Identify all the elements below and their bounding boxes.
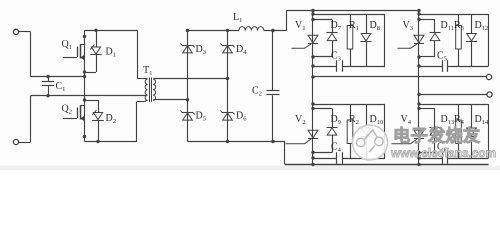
- label D14: [475, 114, 490, 126]
- input terminal - (bottom left): [13, 139, 30, 144]
- label L1: [233, 12, 242, 24]
- node output B: [417, 93, 420, 96]
- diode D8: [360, 14, 371, 66]
- wire inverter top rail: [287, 10, 420, 12]
- wire snubber box edge V2: [384, 104, 386, 158]
- diode D12: [466, 14, 477, 66]
- resistor R2: [347, 104, 353, 158]
- node rectifier top left: [186, 29, 189, 32]
- node Q2 source: [83, 135, 86, 138]
- wire primary bottom riser: [137, 100, 148, 142]
- wire input- up: [30, 96, 32, 142]
- node bottom rail leg2: [417, 163, 420, 166]
- diode D9: [313, 109, 338, 153]
- thyristor V4: [392, 130, 425, 144]
- node leg header2 V2: [311, 107, 314, 110]
- transistor Q1: [63, 44, 85, 60]
- label D3: [196, 44, 207, 56]
- label Q1: [62, 39, 73, 51]
- label C2: [252, 86, 262, 98]
- thyristor V3: [398, 35, 425, 48]
- label V3: [403, 20, 414, 32]
- label R1: [349, 20, 359, 32]
- wire input+ down: [30, 32, 32, 77]
- wire step down: [284, 142, 286, 165]
- wire snubber header (V2 quadrant): [313, 105, 385, 109]
- diode D5: [180, 110, 194, 120]
- wire snubber header (V3 quadrant): [419, 15, 489, 20]
- label Q2: [62, 104, 73, 116]
- resistor R1: [347, 14, 353, 66]
- label R3: [454, 20, 465, 32]
- label D5: [196, 110, 207, 122]
- wire snubber header (V1 quadrant): [313, 15, 385, 20]
- node top rail leg2: [417, 9, 420, 12]
- input terminal + (top left): [13, 29, 30, 34]
- node rectifier bottom right: [226, 140, 229, 143]
- node leg snubber line V3: [417, 64, 420, 67]
- wire top rail to transformer: [85, 30, 138, 32]
- transformer T1: [145, 78, 155, 102]
- label D10: [370, 114, 385, 126]
- wire input+ rail: [31, 76, 85, 78]
- label D6: [236, 110, 247, 122]
- label R4: [454, 114, 465, 126]
- resistor R4: [456, 104, 462, 158]
- label D1: [106, 47, 117, 59]
- node output A: [311, 75, 314, 78]
- node Q1 drain: [83, 35, 86, 38]
- wire secondary bottom: [153, 99, 187, 101]
- wire primary top riser: [138, 30, 148, 78]
- capacitor C2: [267, 31, 280, 142]
- thyristor V2: [286, 130, 319, 144]
- diode D7: [313, 20, 338, 58]
- output terminal A: [486, 74, 491, 79]
- label C3: [331, 50, 342, 62]
- node D2 top: [83, 98, 86, 101]
- node rectifier top right: [226, 29, 229, 32]
- capacitor C1: [42, 77, 54, 96]
- node top rail leg1: [311, 9, 314, 12]
- wire inverter leg A: [312, 11, 314, 165]
- svg-text:www.elecfans.com: www.elecfans.com: [390, 146, 496, 160]
- wire bottom rail to transformer: [85, 141, 138, 143]
- node C1 top: [46, 75, 49, 78]
- wire output rail B: [419, 94, 487, 96]
- wire input- rail to transformer: [31, 95, 147, 97]
- wire output rail A: [313, 76, 486, 78]
- output terminal B: [487, 92, 492, 97]
- diode D13: [419, 109, 441, 153]
- node D1 bottom: [83, 70, 86, 73]
- transistor Q2: [63, 105, 85, 121]
- node leg header2 V3: [417, 18, 420, 21]
- diode D2: [85, 100, 104, 142]
- label R2: [349, 114, 359, 126]
- wire inverter bottom rail: [285, 164, 489, 166]
- wire snubber header (V4 quadrant): [419, 105, 489, 109]
- wire inverter leg B: [418, 11, 420, 165]
- node tie D9: [311, 151, 314, 154]
- node secondary bottom tie: [186, 98, 189, 101]
- diode D1: [85, 30, 102, 72]
- diode D10: [360, 104, 371, 158]
- label D7: [331, 20, 342, 32]
- node leg header2 V4: [417, 107, 420, 110]
- node tie D7: [311, 55, 314, 58]
- label V1: [295, 20, 306, 32]
- node leg header1 V1: [311, 12, 314, 15]
- label T1: [143, 65, 152, 77]
- node D2 bottom: [96, 140, 99, 143]
- wire secondary top: [153, 78, 227, 80]
- node input+ tie: [83, 75, 86, 78]
- watermark bottom strip: [0, 166, 500, 171]
- node leg snubber line V1: [311, 64, 314, 67]
- thyristor V1: [292, 35, 319, 48]
- label C5: [437, 50, 448, 62]
- label D2: [106, 113, 117, 125]
- watermark stamp circle: [353, 125, 388, 160]
- label C4: [331, 142, 342, 154]
- wire snubber box edge V1: [384, 14, 386, 66]
- svg-text:电子发烧友: 电子发烧友: [393, 126, 481, 146]
- capacitor C6: [419, 152, 489, 164]
- capacitor C3: [313, 60, 385, 72]
- node leg header2 V1: [311, 18, 314, 21]
- node leg header1 V2: [311, 102, 314, 105]
- diode D6: [220, 110, 234, 120]
- inductor L1: [239, 27, 264, 31]
- capacitor C4: [313, 152, 385, 164]
- label C6: [437, 142, 448, 154]
- label V2: [295, 114, 306, 126]
- diode D11: [419, 20, 441, 58]
- node leg header1 V3: [417, 12, 420, 15]
- node secondary top tie: [226, 77, 229, 80]
- label D9: [331, 114, 342, 126]
- wire inverter top riser: [286, 11, 288, 31]
- diode D3: [180, 43, 194, 53]
- node tie D13: [417, 151, 420, 154]
- node C2 top: [271, 29, 274, 32]
- label D11: [441, 20, 455, 32]
- wire L1 to riser: [264, 30, 287, 32]
- node D1 top: [94, 29, 97, 32]
- diode D14: [466, 104, 477, 158]
- node leg snubber line V2: [311, 156, 314, 159]
- label D12: [475, 20, 489, 32]
- label D8: [370, 20, 381, 32]
- label D13: [441, 114, 456, 126]
- node leg snubber line V4: [417, 156, 420, 159]
- diode D4: [220, 43, 234, 53]
- capacitor C5: [419, 60, 489, 72]
- wire rectifier bottom rail: [188, 141, 286, 143]
- wire rectifier top rail: [188, 30, 240, 32]
- wire switch leg vertical: [84, 30, 86, 141]
- wire snubber box edge V3: [488, 14, 490, 66]
- label C1: [56, 81, 66, 93]
- label V4: [401, 114, 412, 126]
- resistor R3: [456, 14, 462, 66]
- wire rectifier left leg: [187, 31, 189, 142]
- node tie D11: [417, 55, 420, 58]
- wire snubber box edge V4: [488, 104, 490, 158]
- node C2 bottom: [271, 140, 274, 143]
- node leg header1 V4: [417, 102, 420, 105]
- node C1 bottom: [46, 94, 49, 97]
- node bottom rail leg1: [311, 163, 314, 166]
- wire rectifier right leg: [227, 31, 229, 142]
- label D4: [236, 44, 247, 56]
